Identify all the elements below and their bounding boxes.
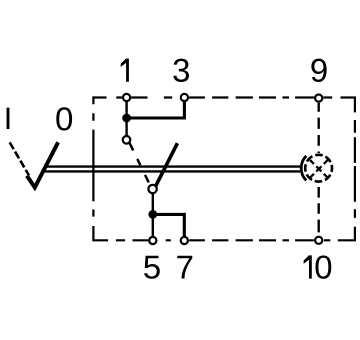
terminal circle 5: [149, 237, 156, 244]
wire: junction down to fixed contact: [125, 118, 127, 137]
wire: terminal 1 down to junction: [125, 101, 127, 118]
wire: dashed lamp to terminal 10: [318, 187, 320, 232]
switch body dashed box: right edge: [354, 96, 356, 241]
terminal circle 3: [181, 94, 188, 101]
lamp coupling arc: [301, 156, 306, 181]
movable contact circle: [148, 185, 156, 193]
rocker lever dashed (position I): [10, 142, 29, 175]
fixed contact circle: [123, 136, 131, 144]
label terminal 7: [177, 256, 192, 279]
label terminal 5: [144, 256, 160, 279]
node junction dot upper: [122, 114, 131, 123]
label position I: [7, 108, 10, 129]
wire: junction down to terminal 5: [152, 214, 154, 237]
wire: movable contact down to junction: [152, 193, 154, 214]
switch body dashed box: bottom edge: [93, 239, 354, 241]
lamp X filament stroke 1: [310, 160, 328, 178]
label position 0: [56, 107, 72, 130]
lamp X filament stroke 2: [310, 160, 328, 178]
label terminal 3: [173, 59, 189, 82]
lamp L dashed circle: [305, 155, 332, 182]
label terminal 10: digit 0: [316, 255, 332, 278]
switch body dashed box: left edge: [92, 96, 94, 241]
terminal circle 9: [315, 95, 322, 102]
wire: dashed terminal 9 to lamp: [318, 103, 320, 153]
node junction dot lower: [148, 210, 157, 219]
label terminal 1: [121, 59, 129, 82]
wire: double line to lamp (top): [45, 165, 300, 167]
wire: double line to lamp (bottom): [42, 170, 300, 172]
terminal circle 1: [123, 94, 130, 101]
switch body dashed box: top edge: [93, 96, 354, 98]
wire: thick link junction to terminal 7: [153, 214, 185, 236]
contact arm blade: [156, 143, 178, 186]
label terminal 9: [311, 59, 326, 82]
mechanical link dashed (contact to movable contact): [130, 143, 149, 183]
wire: thick link junction to terminal 3: [127, 101, 185, 119]
terminal circle 10: [315, 237, 322, 244]
terminal circle 7: [181, 237, 188, 244]
label terminal 10: digit 1: [304, 255, 312, 278]
rocker lever solid (position 0): [27, 142, 58, 187]
